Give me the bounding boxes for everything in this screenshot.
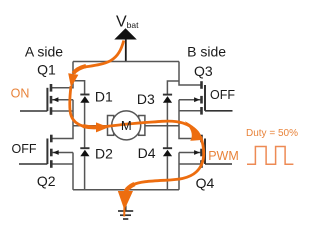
current flow arc: thick approach into Q1	[73, 66, 86, 73]
motor M (terminals and body)	[108, 111, 145, 140]
arrowhead: into ground	[118, 191, 133, 210]
svg-text:Q1: Q1	[37, 61, 56, 77]
wire: B-side leg motor node to Q4 drain	[179, 126, 202, 139]
arrowhead: swoosh into Q4 drain	[185, 121, 203, 141]
svg-text:ON: ON	[11, 87, 30, 101]
wire: B-side source leg (Q3 body/source to motor node)	[178, 100, 180, 126]
svg-text:M: M	[121, 118, 132, 133]
diode D2	[80, 148, 89, 156]
svg-text:D4: D4	[138, 145, 156, 161]
wire: bottom rail	[73, 189, 179, 191]
wire: D2 cathode from motor node A	[84, 126, 86, 148]
wire: D1 anode to motor node A	[84, 103, 86, 126]
svg-text:D2: D2	[95, 146, 113, 162]
wire: A-side drain leg (top rail to Q1 drain)	[51, 62, 73, 88]
arrowhead: into motor	[96, 122, 109, 132]
wire: Q4 body stub	[179, 152, 202, 154]
wire: D4 anode to bottom rail	[166, 156, 168, 190]
PWM waveform	[247, 147, 293, 165]
wire: top rail	[73, 61, 179, 63]
diode D4	[163, 148, 172, 156]
svg-text:D1: D1	[95, 89, 113, 105]
wire: B-side drain leg (top rail to Q3 drain)	[179, 62, 202, 86]
wire: Q2 source stub	[51, 163, 73, 165]
current flow arc: thick approach into motor	[83, 126, 97, 127]
wire: Q4 body-source tie	[178, 153, 180, 165]
wire: D3 branch tap	[167, 81, 179, 95]
wire: ground lead	[125, 190, 127, 211]
wire: D4 cathode from motor node B	[166, 126, 168, 148]
svg-text:OFF: OFF	[12, 142, 37, 156]
svg-text:B side: B side	[187, 44, 226, 60]
wire: A-side leg Q2 source to bottom rail	[72, 164, 74, 190]
diode D1	[80, 95, 89, 103]
current flow arc: V_bat to Q1	[73, 41, 124, 74]
wire: Q1 body stub	[51, 99, 73, 101]
svg-text:A side: A side	[25, 44, 63, 60]
wire: D3 anode to motor node B	[166, 103, 168, 126]
wire: D1 branch tap	[73, 81, 85, 95]
supply V_bat symbol	[114, 28, 137, 39]
transistor Q4 (B-side low, PWM)	[194, 135, 232, 168]
current flow arc: thick approach into ground	[126, 184, 135, 191]
wire: A-side source leg (Q1 body/source to motor node)	[72, 100, 74, 126]
wire: motor right terminal to motor node B	[144, 125, 179, 127]
diode D3	[163, 95, 172, 103]
svg-text:OFF: OFF	[210, 88, 235, 102]
wire: Q2 body-source tie	[72, 153, 74, 165]
transistor Q2 (A-side low, OFF)	[19, 135, 59, 168]
wire: Q4 source stub	[179, 163, 202, 165]
svg-text:Q3: Q3	[194, 63, 213, 79]
transistor Q1 (A-side high, ON)	[20, 84, 58, 115]
svg-text:Q2: Q2	[37, 173, 56, 189]
wire: Q3 source stub	[179, 110, 202, 112]
wire: Q2 body stub	[51, 152, 73, 154]
wire: Q3 body stub	[179, 99, 202, 101]
transistor Q3 (B-side high, OFF)	[194, 81, 232, 114]
current flow arc: Q4 to ground	[125, 137, 203, 192]
svg-text:D3: D3	[137, 91, 155, 107]
current flow arc: through motor to Q4	[98, 121, 198, 133]
svg-text:Duty = 50%: Duty = 50%	[246, 128, 298, 139]
svg-text:PWM: PWM	[208, 149, 239, 163]
arrowhead: into Q1 drain	[68, 73, 78, 87]
wire: motor node A to motor left terminal	[73, 125, 108, 127]
ground	[118, 211, 133, 219]
wire: D2 anode to bottom rail	[84, 156, 86, 190]
arrowhead tail taper at ground	[123, 207, 125, 217]
wire: V_bat lead down to top rail	[125, 39, 127, 62]
wire: B-side leg Q4 source to bottom rail	[178, 164, 180, 190]
wire: A-side leg motor node to Q2 drain	[51, 126, 73, 139]
svg-text:Q4: Q4	[196, 175, 215, 191]
current flow arc: Q1 to motor	[70, 86, 97, 127]
wire: Q1 source stub	[51, 110, 73, 112]
